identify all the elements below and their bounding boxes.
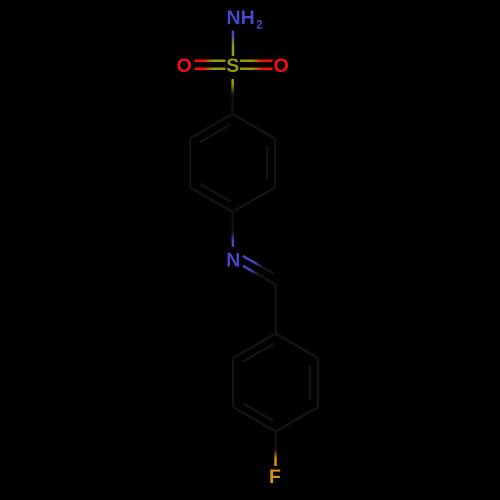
svg-text:NH: NH: [227, 7, 255, 29]
svg-text:O: O: [274, 55, 289, 77]
svg-text:F: F: [269, 466, 281, 488]
svg-text:2: 2: [256, 19, 262, 31]
svg-text:N: N: [226, 249, 240, 271]
svg-text:S: S: [226, 55, 239, 77]
svg-text:O: O: [177, 55, 192, 77]
